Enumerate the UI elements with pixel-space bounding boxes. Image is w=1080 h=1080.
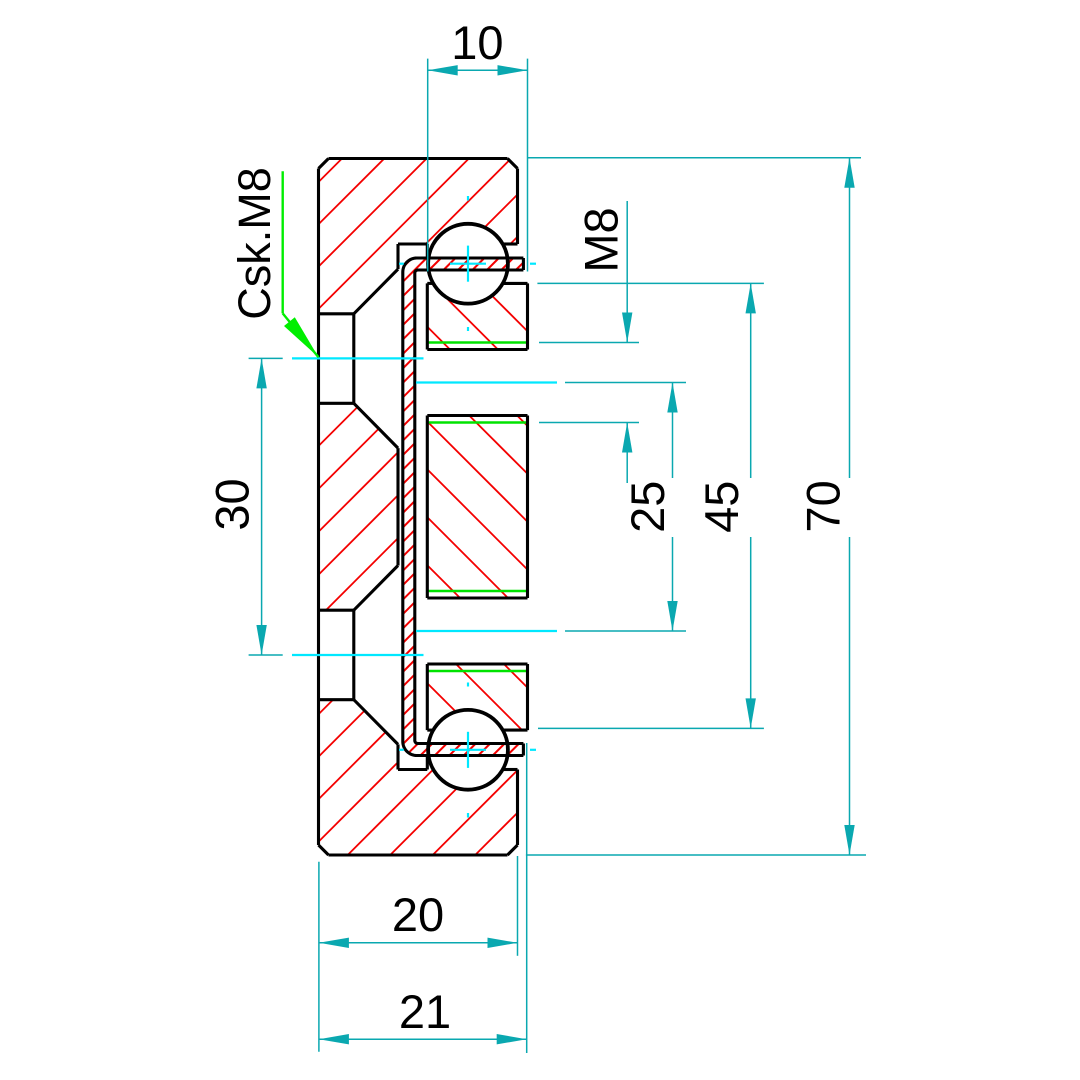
tapped hole 2 bore lines <box>427 598 527 664</box>
leader Csk.M8 (green) <box>229 167 319 357</box>
svg-text:Csk.M8: Csk.M8 <box>229 167 280 320</box>
dimension 21 (overall width) <box>319 743 527 1053</box>
centerline csk hole 1 <box>292 357 424 359</box>
svg-text:M8: M8 <box>575 207 628 272</box>
inner rail outline <box>427 283 527 730</box>
dimension 45 (inner rail length) <box>537 283 764 728</box>
svg-text:30: 30 <box>206 478 259 530</box>
hatch: inner rail section (red) <box>427 283 527 730</box>
tapped hole 1 bore lines <box>427 350 527 416</box>
svg-text:21: 21 <box>399 985 451 1038</box>
svg-text:10: 10 <box>451 16 503 69</box>
dimension 10 (inner rail width) <box>428 16 528 272</box>
centerline tapped hole 1 <box>416 381 557 383</box>
countersunk hole 1 (Csk.M8) <box>319 269 399 448</box>
countersunk hole 2 (Csk.M8) <box>319 566 399 745</box>
hatch: outer rail section (red) <box>319 159 518 856</box>
thread M8 major lines, tapped hole 1 (green) <box>427 343 527 423</box>
svg-text:70: 70 <box>797 480 850 532</box>
thread M8 major lines, tapped hole 2 (green) <box>427 591 527 671</box>
dimension 25 (tapped hole spacing) <box>565 383 686 632</box>
centerline csk hole 2 <box>292 654 424 656</box>
bent-sheet raceway outline <box>403 258 524 756</box>
dimension M8 (thread) <box>539 201 639 483</box>
center mark ball top <box>399 196 536 331</box>
svg-text:45: 45 <box>695 481 748 533</box>
ball bearing top <box>428 224 508 304</box>
svg-text:25: 25 <box>621 481 674 533</box>
svg-text:20: 20 <box>392 888 444 941</box>
hatch: bent-sheet raceway section (red) <box>403 258 524 756</box>
dimension 20 (outer rail width) <box>319 856 518 1052</box>
ball bearing bottom <box>428 710 508 790</box>
center mark ball bottom <box>399 683 536 818</box>
dimension 30 (csk hole spacing) <box>206 358 283 655</box>
outer rail outline <box>319 159 518 856</box>
dimension 70 (outer rail height) <box>526 158 866 855</box>
centerline tapped hole 2 <box>416 630 557 632</box>
